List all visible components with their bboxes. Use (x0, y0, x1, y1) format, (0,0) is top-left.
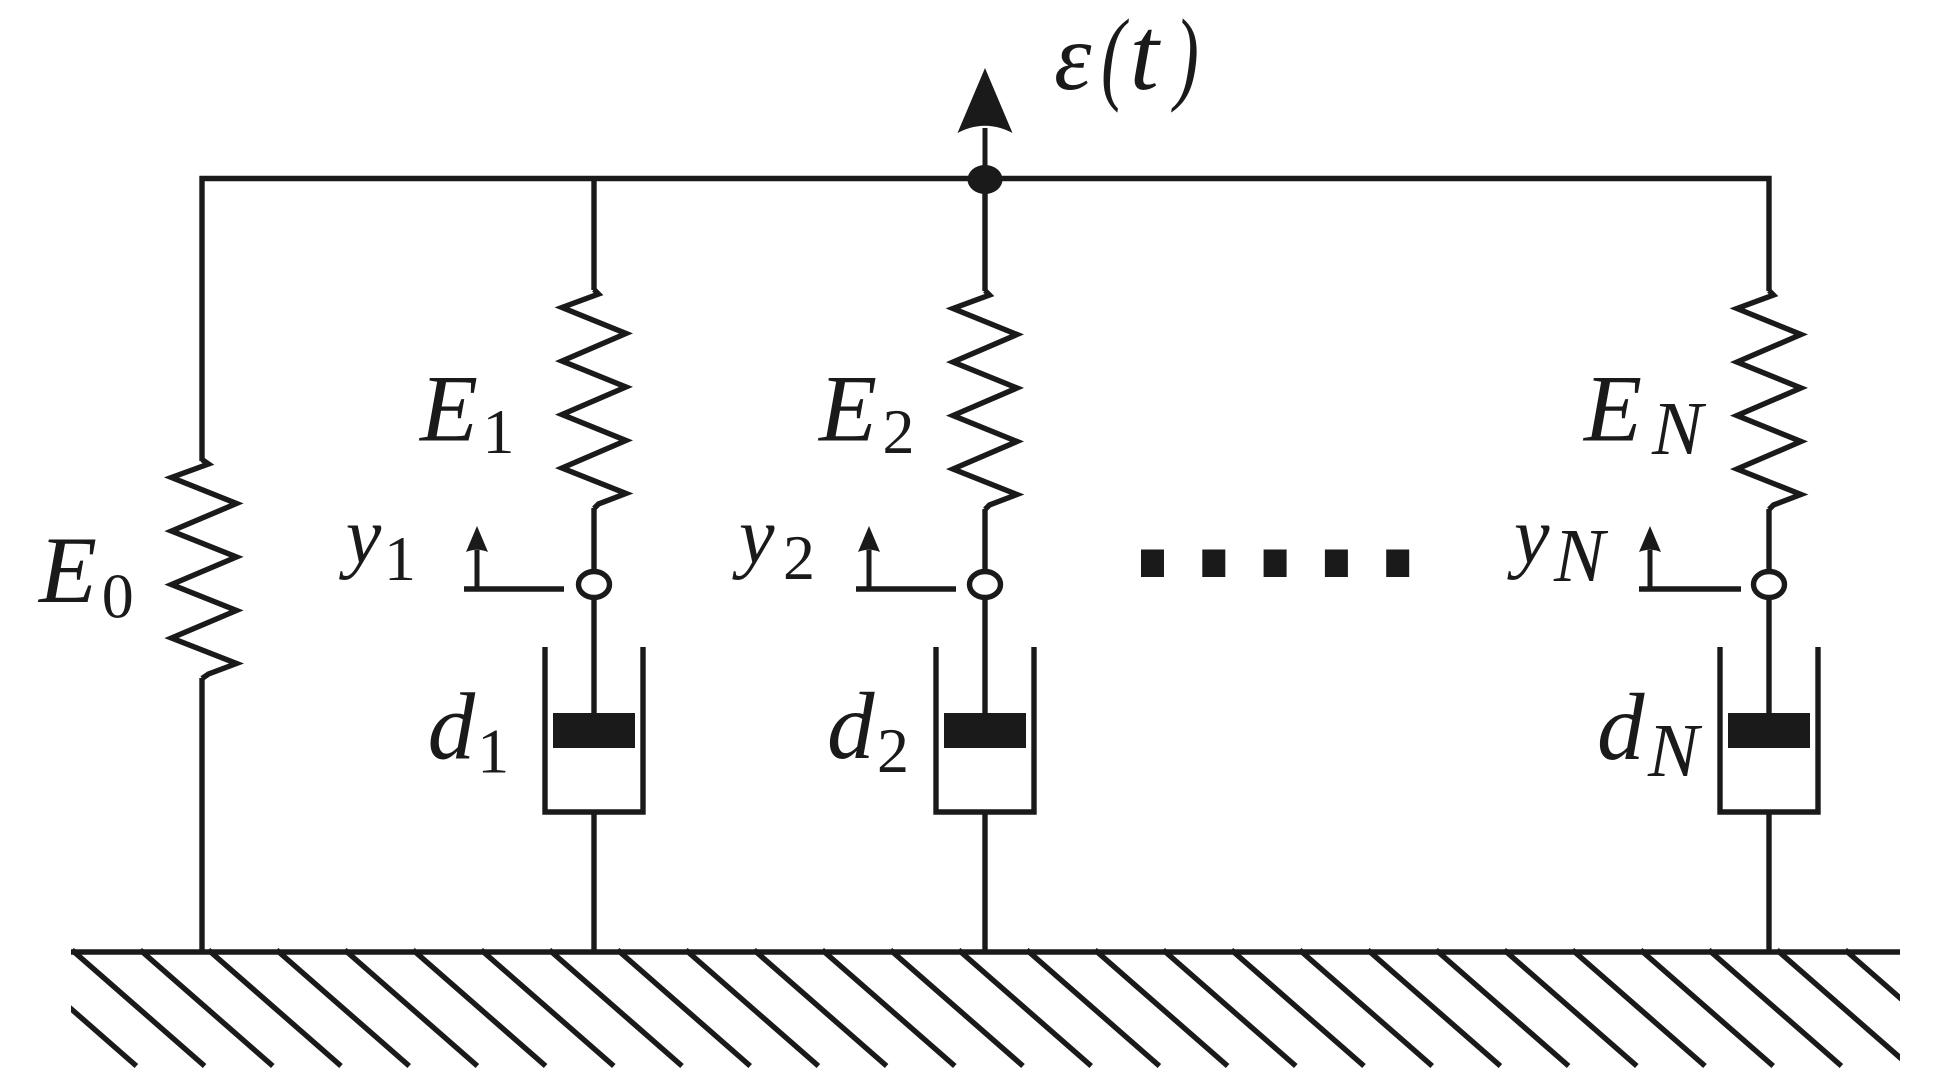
svg-text:y: y (732, 493, 775, 581)
label yN (1507, 493, 1609, 598)
node yN circle (1754, 572, 1785, 598)
svg-text:N: N (1647, 709, 1703, 793)
spring EN (1737, 291, 1801, 510)
node yN displacement arrow (1639, 526, 1741, 589)
svg-text:E: E (1582, 356, 1642, 462)
dashpot dN piston (1728, 713, 1810, 748)
label d1 (428, 674, 510, 787)
svg-text:E: E (418, 356, 478, 462)
wire branch-1 top lead (591, 176, 596, 290)
svg-text:1: 1 (483, 396, 515, 467)
wire dashpot d1 bottom lead (591, 812, 596, 952)
wire branch-2 top lead (982, 176, 987, 291)
svg-text:y: y (1507, 493, 1550, 581)
wire branch-N top lead (1766, 176, 1771, 291)
svg-text:t: t (1130, 0, 1162, 112)
svg-text:1: 1 (477, 716, 509, 787)
dashpot dN cylinder (1720, 647, 1818, 812)
svg-text:N: N (1553, 514, 1609, 598)
node ellipsis dots (1141, 550, 1409, 578)
svg-text:d: d (428, 674, 476, 780)
node y1 circle (579, 572, 610, 598)
wire E0 bottom lead (199, 678, 204, 952)
dashpot d2 cylinder (936, 647, 1034, 812)
svg-text:2: 2 (783, 522, 815, 593)
ground (4, 950, 1938, 1066)
wire branch-1 mid lead (591, 508, 596, 715)
label y2 (732, 493, 815, 593)
spring E2 (953, 291, 1017, 510)
node y2 displacement arrow (856, 526, 956, 589)
label y1 (339, 493, 416, 594)
wire branch-2 mid lead (982, 509, 987, 715)
wire branch-N mid lead (1766, 509, 1771, 715)
svg-text:d: d (827, 673, 875, 779)
svg-text:ε: ε (1054, 4, 1092, 110)
svg-text:0: 0 (102, 561, 134, 632)
svg-text:E: E (37, 517, 97, 623)
label epsilon(t) (1054, 0, 1199, 114)
node y2 circle (970, 572, 1001, 598)
svg-text:d: d (1597, 674, 1645, 780)
node strain input junction (968, 165, 1003, 194)
svg-text:(: ( (1101, 0, 1129, 114)
svg-text:N: N (1651, 387, 1707, 471)
spring E1 (562, 290, 626, 509)
label E1 (418, 356, 515, 468)
dashpot d2 piston (944, 713, 1026, 748)
strain arrow (958, 68, 1013, 178)
label E2 (817, 356, 915, 468)
wire dashpot d2 bottom lead (982, 812, 987, 952)
label E0 (37, 517, 134, 632)
label dN (1597, 674, 1703, 793)
svg-text:): ) (1171, 0, 1199, 114)
spring E0 (172, 460, 237, 679)
label d2 (827, 673, 909, 786)
dashpot d1 piston (553, 713, 635, 748)
svg-text:E: E (817, 356, 877, 462)
svg-text:y: y (339, 493, 382, 581)
wire top bus (200, 176, 1772, 181)
node y1 displacement arrow (464, 526, 564, 589)
label EN (1582, 356, 1707, 472)
svg-text:2: 2 (883, 396, 915, 467)
wire dashpot dN bottom lead (1766, 812, 1771, 952)
dashpot d1 cylinder (545, 647, 643, 812)
wire left branch top lead (199, 176, 204, 461)
svg-text:1: 1 (384, 523, 416, 594)
svg-text:2: 2 (877, 715, 909, 786)
